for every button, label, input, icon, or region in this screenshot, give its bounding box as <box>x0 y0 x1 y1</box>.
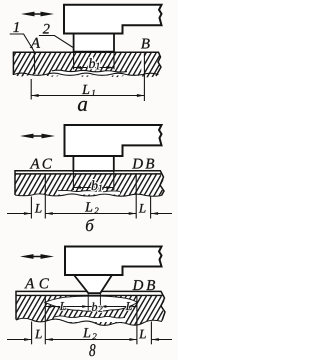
leader line of label 1 <box>10 34 35 74</box>
dimension b1 (fig a) <box>73 52 75 69</box>
heated zone (white, fig b) <box>58 190 120 194</box>
white zone under lens (fig v) <box>55 316 125 322</box>
hatch gap near B (fig a) <box>141 53 144 74</box>
dimension L (left, fig b) <box>7 213 31 215</box>
sheets outline + interface (fig v) <box>16 291 165 320</box>
welding tool (fig b) <box>73 156 113 171</box>
label b2 <box>92 302 97 310</box>
label D (fig b) <box>132 159 143 169</box>
label 1 <box>13 22 18 32</box>
subfigure label a <box>78 101 87 111</box>
workpiece outline (fig a) <box>13 52 161 76</box>
label A (fig b) <box>30 159 40 169</box>
welding tool with wedge tip (fig v) <box>74 275 112 293</box>
label L (left in lens) <box>60 302 66 310</box>
vibration arrow (fig a) <box>33 13 43 15</box>
dimension L1 (fig a) <box>30 79 32 100</box>
label b1 (fig a) <box>89 58 95 68</box>
label b1 (fig b) <box>92 180 98 190</box>
extension lines C,D (fig v) <box>44 296 46 344</box>
label A (fig v) <box>24 278 34 288</box>
label C (fig b) <box>43 159 52 169</box>
label L1 (fig a) <box>82 85 89 94</box>
dimension L2 (fig v) <box>45 339 137 341</box>
vibration arrow (fig v) <box>32 256 43 258</box>
label 2 <box>43 24 50 34</box>
subfigure label b <box>86 219 94 231</box>
vibration arrow (fig b) <box>32 135 44 137</box>
extension lines / boundaries C,D (fig b) <box>44 174 46 219</box>
dimension L (right, fig b) <box>151 213 172 215</box>
welding tool (fig a) <box>74 34 114 52</box>
workpiece sheet hatch (fig a) <box>13 52 161 77</box>
dimension L2 (fig b) <box>45 213 136 215</box>
extension lines A,B (fig v) <box>31 322 33 345</box>
label C (fig v) <box>40 278 49 288</box>
label A (fig a) <box>30 38 40 48</box>
melt lens (white, fig v) <box>45 296 138 311</box>
label B (fig a) <box>141 39 150 49</box>
lower sheet hatch (fig b) <box>15 174 164 196</box>
chain dimension inside lens: L b2 L (fig v) <box>87 294 89 311</box>
dimension L (left, fig v) <box>7 339 32 341</box>
label D (fig v) <box>132 280 143 290</box>
leader line of label 2 <box>39 36 73 48</box>
lower sheet hatch (fig v) <box>16 295 165 325</box>
sheets outline + interface (fig b) <box>15 171 164 196</box>
label L (right in lens) <box>126 302 132 310</box>
label B (fig b) <box>145 159 154 169</box>
heated zone (white, fig a) <box>52 70 127 75</box>
dimension b1 (fig b) <box>72 171 74 190</box>
label B (fig v) <box>146 280 155 290</box>
extension lines A,B (fig b) <box>30 197 32 219</box>
subfigure label v <box>89 344 95 356</box>
dimension L (right, fig v) <box>151 339 172 341</box>
